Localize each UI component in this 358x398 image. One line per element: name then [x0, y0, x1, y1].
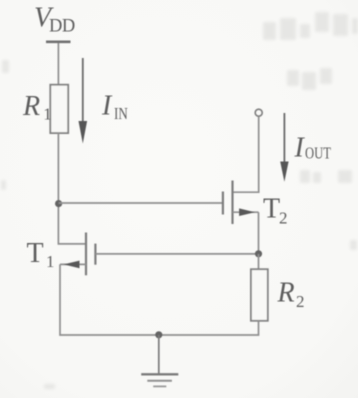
current arrow IIN	[79, 58, 88, 144]
wire T1 gate to node B	[95, 253, 258, 255]
label R2	[277, 278, 305, 312]
svg-text:I: I	[101, 91, 113, 122]
current arrow IOUT	[280, 113, 288, 182]
transistor T2 gate bar	[222, 192, 224, 215]
svg-text:T: T	[27, 238, 44, 269]
node B	[255, 250, 262, 257]
svg-text:2: 2	[296, 292, 305, 311]
wire T2 source down to node B	[258, 212, 260, 254]
svg-text:DD: DD	[49, 17, 75, 37]
wire T1 source down to ground rail	[60, 264, 159, 335]
svg-text:2: 2	[279, 209, 288, 228]
wire VDD bar to R1	[57, 43, 59, 85]
svg-text:I: I	[294, 133, 306, 164]
label IIN	[101, 91, 128, 123]
transistor T2 channel bar	[231, 181, 233, 225]
ground node	[155, 331, 162, 338]
transistor T1 channel bar	[85, 233, 87, 276]
wire R2 to ground rail	[159, 321, 259, 335]
transistor T1 source lead with arrow	[60, 261, 86, 269]
transistor T2 source lead with arrow	[233, 208, 259, 216]
svg-text:IN: IN	[114, 104, 128, 123]
svg-text:R: R	[277, 278, 295, 309]
svg-text:T: T	[263, 194, 280, 225]
supply terminal bar	[46, 40, 71, 43]
label T1	[27, 238, 55, 271]
label VDD	[34, 3, 75, 37]
resistor R2	[251, 269, 268, 321]
wire node B to R2	[258, 254, 260, 270]
wire R1 to node A and on to T1 drain corner	[58, 133, 86, 244]
wire terminal to T2 drain corner	[233, 116, 259, 192]
label R1	[22, 91, 52, 124]
ground	[141, 335, 178, 386]
label IOUT	[294, 133, 332, 164]
resistor R1	[50, 85, 68, 133]
transistor T1 gate bar	[94, 244, 96, 265]
output terminal circle	[255, 109, 262, 116]
svg-text:R: R	[22, 91, 40, 122]
svg-text:OUT: OUT	[305, 144, 331, 163]
wire node A to T2 gate	[59, 202, 223, 204]
svg-text:1: 1	[46, 252, 55, 271]
svg-text:1: 1	[43, 105, 52, 124]
node A	[55, 200, 62, 207]
label T2	[263, 194, 288, 228]
